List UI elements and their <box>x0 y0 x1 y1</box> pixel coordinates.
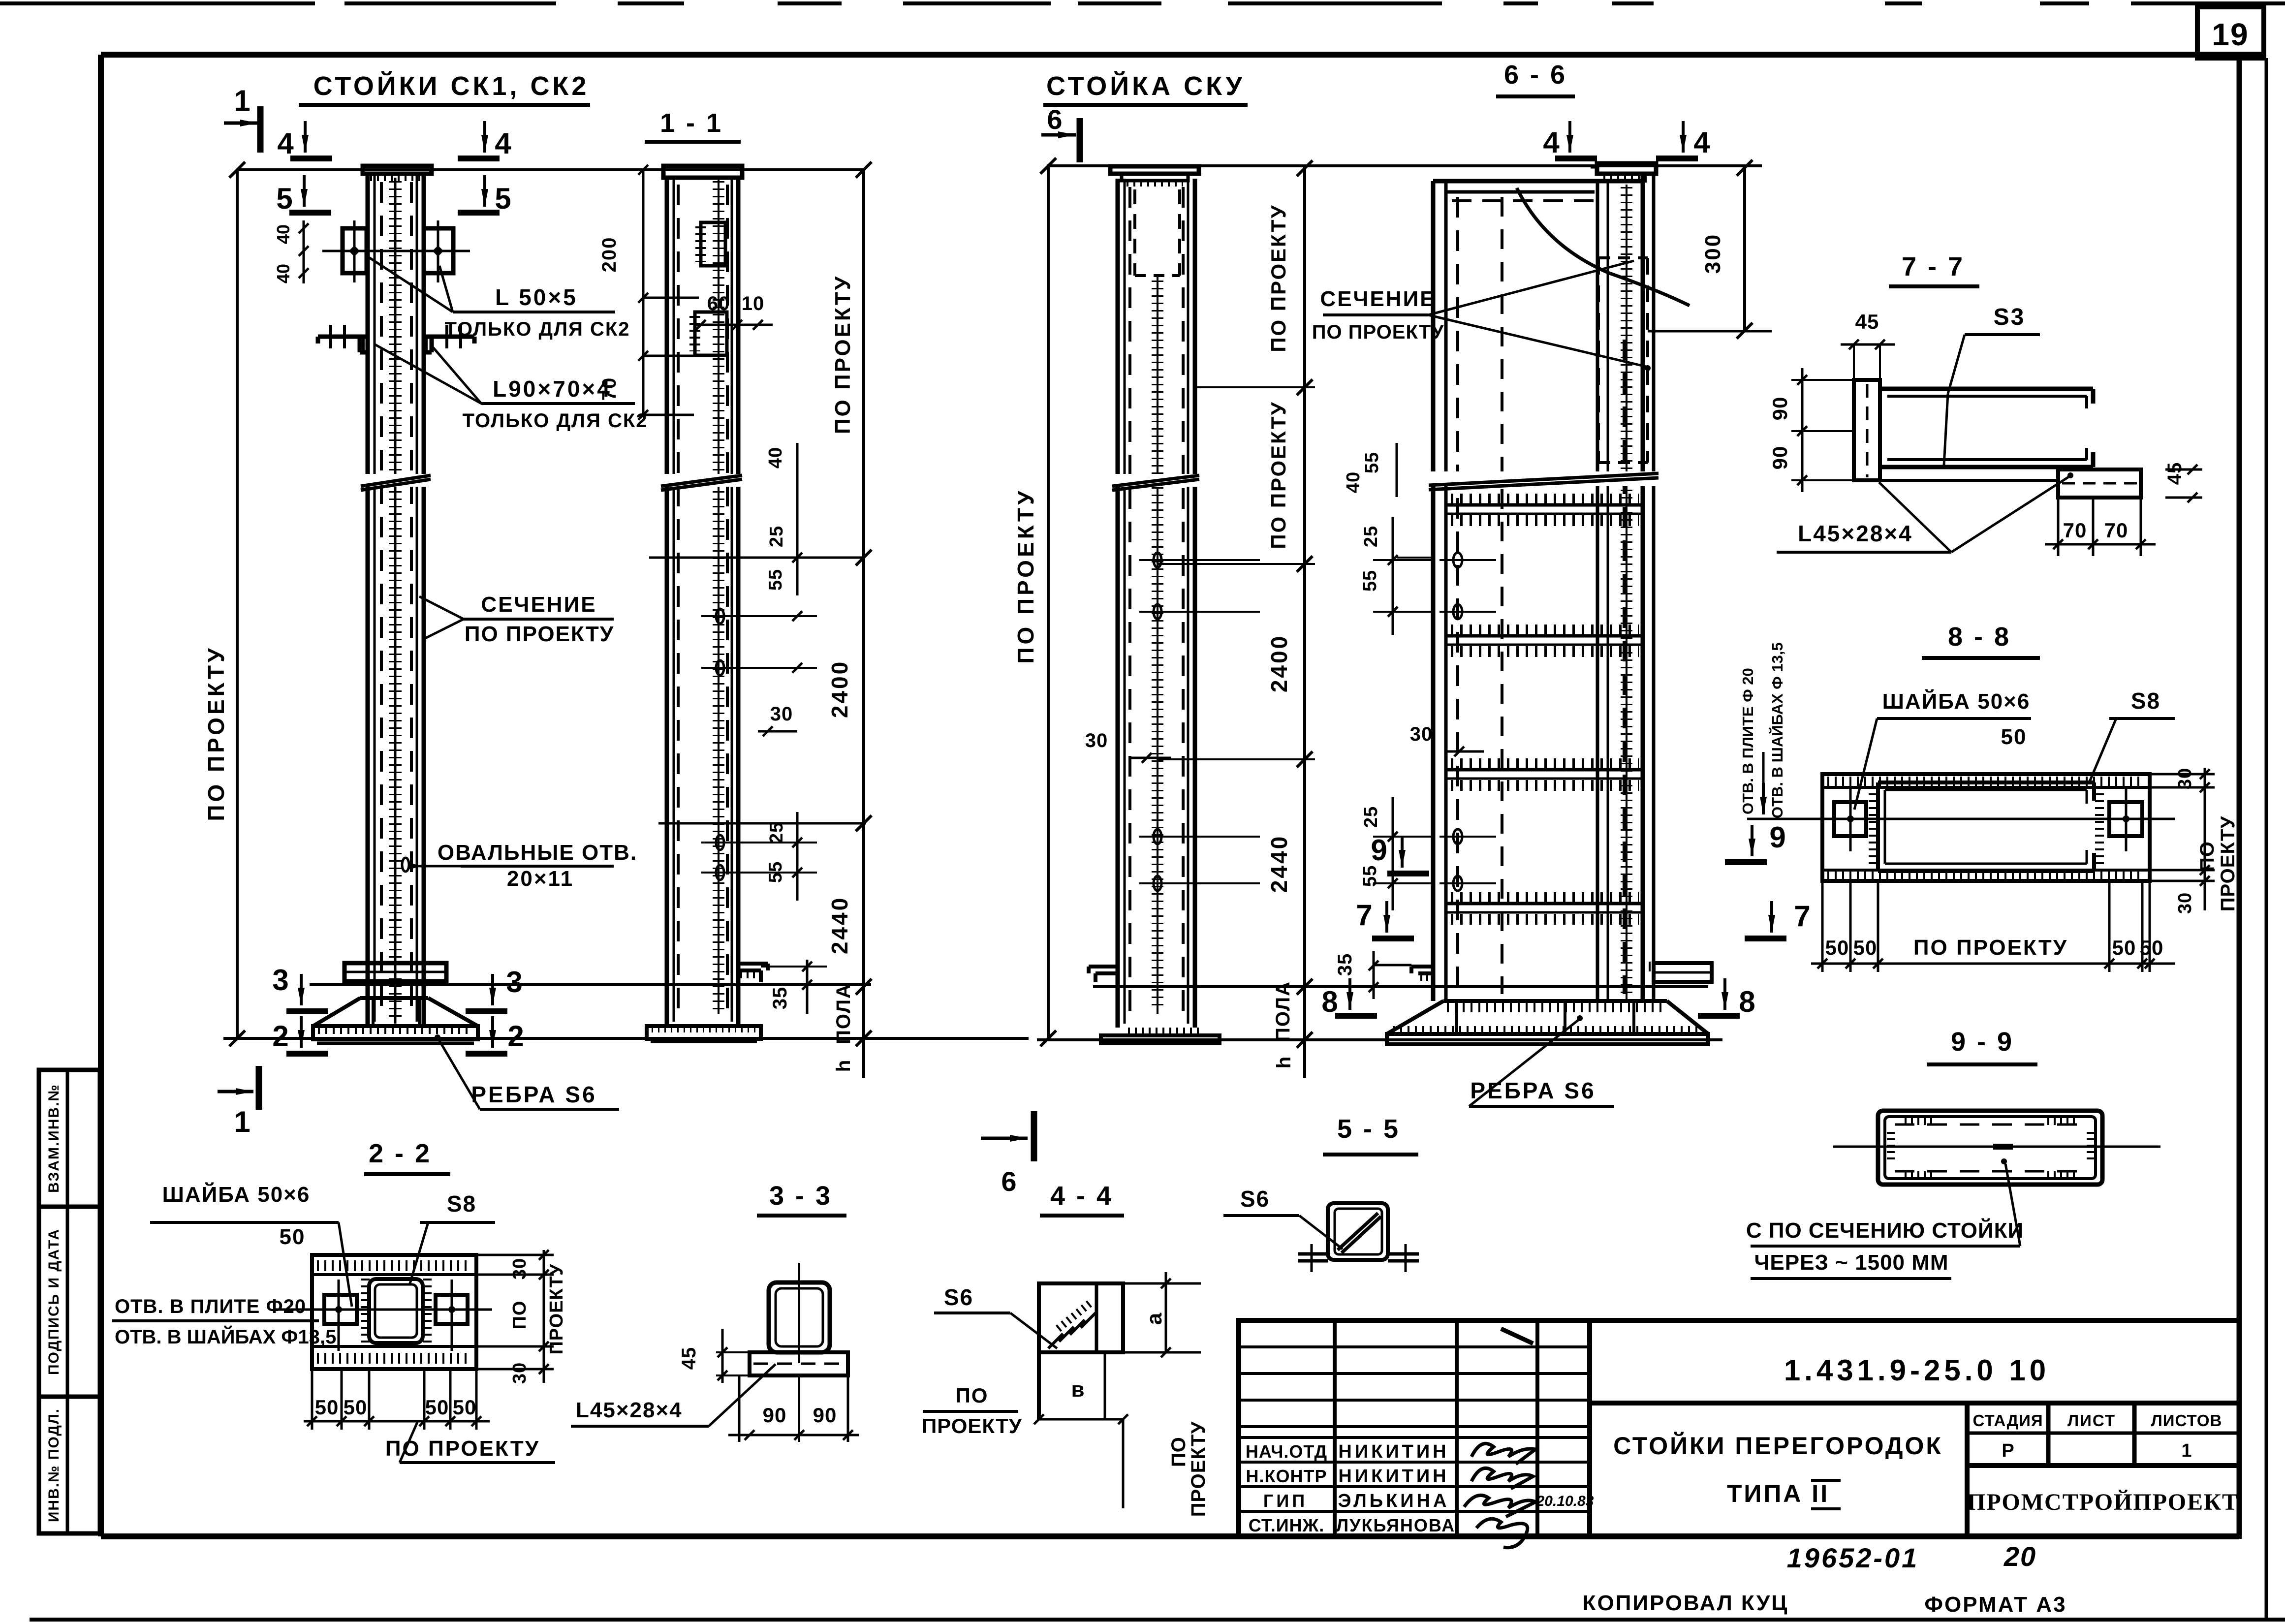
svg-text:3: 3 <box>272 964 288 997</box>
col2 hole group lines <box>649 558 866 823</box>
svg-text:50: 50 <box>453 1396 477 1419</box>
svg-text:ПО ПРОЕКТУ: ПО ПРОЕКТУ <box>831 275 855 434</box>
d88 bottom dims <box>1811 881 2175 972</box>
col1 base trapezoid ribs <box>313 998 478 1043</box>
svg-text:КОПИРОВАЛ КУЦ: КОПИРОВАЛ КУЦ <box>1583 1591 1789 1615</box>
d44 По проекту horizontal <box>922 1384 1022 1437</box>
svg-text:ГИП: ГИП <box>1263 1491 1308 1511</box>
svg-text:50: 50 <box>280 1225 306 1249</box>
svg-text:25: 25 <box>766 526 787 547</box>
col4 rod <box>1626 185 1628 999</box>
d99 tube <box>1878 1111 2102 1185</box>
svg-text:19652-01: 19652-01 <box>1787 1542 1919 1573</box>
row Нач.отд <box>1246 1441 1449 1462</box>
svg-text:ПО: ПО <box>956 1384 989 1407</box>
svg-text:10: 10 <box>742 293 765 314</box>
row ГИП <box>1263 1491 1450 1511</box>
d77 dim 45 right <box>2164 462 2202 502</box>
svg-text:200: 200 <box>598 237 620 273</box>
svg-text:30: 30 <box>770 703 793 725</box>
d22 center line <box>273 1309 492 1311</box>
svg-text:1: 1 <box>2181 1440 2191 1461</box>
d22 hatch columns <box>365 1279 427 1343</box>
svg-text:2 - 2: 2 - 2 <box>369 1139 432 1168</box>
label Сечение по проекту col1 <box>419 593 614 646</box>
svg-text:ПО ПРОЕКТУ: ПО ПРОЕКТУ <box>1913 936 2068 960</box>
col1 body walls <box>368 174 424 1026</box>
col2 dim 60 10 <box>694 293 773 330</box>
svg-text:4: 4 <box>1543 126 1560 159</box>
d22 right dims <box>476 1250 567 1384</box>
svg-text:СТОЙКА СКУ: СТОЙКА СКУ <box>1046 71 1245 101</box>
svg-text:25: 25 <box>766 822 787 843</box>
col1 marks 5-5 <box>276 175 511 215</box>
title block right top divider <box>1590 1401 2239 1405</box>
label Овальные отв 20x11 <box>402 841 637 891</box>
d88 center line <box>1752 818 2175 820</box>
col4 dims 25 55 lower <box>1360 797 1433 910</box>
title 7-7 <box>1889 252 1979 286</box>
sheet title line 1 <box>1613 1432 1943 1460</box>
svg-text:ПОЛА: ПОЛА <box>833 983 854 1044</box>
svg-text:55: 55 <box>1362 452 1382 473</box>
svg-text:2400: 2400 <box>1266 634 1292 692</box>
scan artifact: top edge dashes <box>0 1 2285 5</box>
d77 dims 70 70 <box>2045 498 2156 556</box>
col4 marks 8-8 <box>1321 978 1755 1018</box>
svg-text:СТОЙКИ СК1, СК2: СТОЙКИ СК1, СК2 <box>313 71 590 101</box>
label Ребра S6 6-6 <box>1469 1015 1614 1106</box>
svg-text:20.10.83: 20.10.83 <box>1536 1493 1594 1509</box>
svg-text:9: 9 <box>1769 821 1785 854</box>
d88 hatch cols <box>1873 786 2099 867</box>
col4 dim 300 <box>1648 160 1772 339</box>
d22 plate <box>312 1255 476 1369</box>
svg-text:S8: S8 <box>2131 688 2160 714</box>
col1 marks 2-2 <box>272 1016 524 1054</box>
svg-text:НИКИТИН: НИКИТИН <box>1338 1466 1449 1487</box>
d55 diagonal <box>1338 1213 1381 1253</box>
value 1 <box>2181 1440 2191 1461</box>
col3 dim 30 <box>1085 730 1171 763</box>
svg-text:20×11: 20×11 <box>507 867 574 891</box>
col3 body walls <box>1118 179 1195 1028</box>
label СТАДИЯ <box>1972 1411 2043 1430</box>
sheet number box 19 <box>2197 7 2264 58</box>
d33 dim 45 <box>678 1329 750 1383</box>
col4 dim 30 <box>1410 723 1484 756</box>
svg-text:ОТВ. В ПЛИТЕ Ф 20: ОТВ. В ПЛИТЕ Ф 20 <box>1739 668 1756 814</box>
label Шайба 50x6 d88 <box>1854 688 2031 810</box>
svg-text:L 50×5: L 50×5 <box>495 284 578 310</box>
d33 tube <box>769 1263 830 1363</box>
svg-text:а: а <box>1142 1312 1166 1325</box>
label Листов <box>2151 1411 2222 1430</box>
svg-text:6: 6 <box>1001 1166 1016 1197</box>
label Копировал Куц <box>1583 1591 1789 1615</box>
СКУ right dim chain <box>1158 160 1315 1078</box>
svg-text:ПО: ПО <box>1168 1437 1189 1467</box>
svg-text:50: 50 <box>2140 936 2164 959</box>
svg-text:45: 45 <box>1855 310 1879 333</box>
svg-text:30: 30 <box>2175 768 2195 789</box>
svg-text:35: 35 <box>1334 953 1356 976</box>
svg-text:300: 300 <box>1701 233 1725 274</box>
col2 dim 30 <box>758 703 797 736</box>
svg-text:70: 70 <box>598 377 620 401</box>
d55 feet <box>1298 1244 1419 1272</box>
svg-text:ОВАЛЬНЫЕ ОТВ.: ОВАЛЬНЫЕ ОТВ. <box>438 841 637 865</box>
stamp label Инв.№ подл. <box>46 1408 62 1522</box>
col4 inner channel wall <box>1597 181 1608 999</box>
svg-text:90: 90 <box>1768 446 1791 470</box>
col2 dims 55 40 25 upper <box>720 443 817 673</box>
svg-text:ПО ПРОЕКТУ: ПО ПРОЕКТУ <box>1267 204 1290 352</box>
scan artifact: right page edge <box>2265 58 2268 1621</box>
svg-text:Р: Р <box>2002 1440 2014 1461</box>
svg-text:ТОЛЬКО ДЛЯ СК2: ТОЛЬКО ДЛЯ СК2 <box>463 410 648 432</box>
svg-text:ШАЙБА 50×6: ШАЙБА 50×6 <box>162 1182 311 1207</box>
svg-text:ЛИСТ: ЛИСТ <box>2067 1411 2116 1430</box>
col3 cap plate <box>1110 166 1199 183</box>
svg-text:9: 9 <box>1371 834 1387 867</box>
svg-text:ПРОЕКТУ: ПРОЕКТУ <box>922 1414 1022 1437</box>
col3 rod <box>1157 276 1158 1014</box>
value Р <box>2002 1440 2014 1461</box>
svg-text:3 - 3: 3 - 3 <box>769 1181 832 1211</box>
signature squiggles <box>1464 1443 1594 1547</box>
svg-text:45: 45 <box>2164 462 2186 485</box>
d22 washers <box>324 1280 468 1351</box>
col4 weld bands <box>1446 499 1643 919</box>
title 6-6 <box>1496 60 1575 96</box>
svg-text:55: 55 <box>765 569 786 591</box>
svg-text:h: h <box>833 1059 854 1072</box>
d88 washers <box>1834 787 2142 851</box>
label Шайба 50x6 d22 <box>150 1182 352 1307</box>
svg-text:1 - 1: 1 - 1 <box>660 108 723 138</box>
title Стойки СК1,СК2 <box>299 71 590 105</box>
col4 marks 7-7 <box>1356 899 1810 938</box>
col2 rod <box>718 178 720 1014</box>
svg-text:S8: S8 <box>447 1191 476 1217</box>
svg-text:L90×70×4: L90×70×4 <box>493 376 612 402</box>
svg-text:30: 30 <box>509 1362 530 1384</box>
svg-text:40: 40 <box>273 224 293 244</box>
svg-text:ПРОЕКТУ: ПРОЕКТУ <box>546 1263 567 1354</box>
svg-text:ФОРМАТ А3: ФОРМАТ А3 <box>1924 1593 2066 1617</box>
svg-text:ОТВ. В ШАЙБАХ Ф13,5: ОТВ. В ШАЙБАХ Ф13,5 <box>115 1325 336 1348</box>
svg-text:8 - 8: 8 - 8 <box>1948 622 2011 652</box>
scan artifact: bottom page edge <box>30 1618 2285 1622</box>
label Ребра S6 col1 <box>435 1034 619 1109</box>
svg-text:1: 1 <box>234 84 250 117</box>
svg-text:45: 45 <box>678 1347 700 1370</box>
svg-text:50: 50 <box>1825 936 1849 959</box>
svg-text:70: 70 <box>2104 519 2128 542</box>
d88 channel <box>1878 782 2094 871</box>
col2 dim 70 <box>598 302 694 420</box>
col3 dim line По проекту <box>1013 158 1056 1046</box>
svg-text:Н.КОНТР: Н.КОНТР <box>1246 1466 1327 1486</box>
label Сечение по проекту 6-6 <box>1312 261 1651 371</box>
svg-text:90: 90 <box>813 1404 837 1427</box>
col3 hook bracket <box>1089 967 1118 982</box>
svg-text:3: 3 <box>506 966 522 999</box>
col2 main dim line <box>827 162 872 1078</box>
col4 oval holes <box>1440 553 1496 891</box>
svg-text:55: 55 <box>1360 570 1380 592</box>
svg-text:L45×28×4: L45×28×4 <box>1798 521 1913 546</box>
svg-text:4: 4 <box>277 127 294 160</box>
svg-text:40: 40 <box>765 447 786 468</box>
svg-text:ВЗАМ.ИНВ.№: ВЗАМ.ИНВ.№ <box>46 1084 62 1193</box>
svg-text:50: 50 <box>2001 725 2027 749</box>
svg-text:ПО ПРОЕКТУ: ПО ПРОЕКТУ <box>1312 321 1444 343</box>
d77 dim 45 top <box>1841 310 1895 380</box>
d55 square tube <box>1328 1203 1388 1260</box>
floor line left <box>223 1037 1029 1040</box>
svg-text:ПОЛА: ПОЛА <box>1272 981 1294 1042</box>
svg-text:ШАЙБА 50×6: ШАЙБА 50×6 <box>1882 688 2031 714</box>
svg-text:ЧЕРЕЗ ~ 1500 ММ: ЧЕРЕЗ ~ 1500 ММ <box>1754 1250 1948 1275</box>
title 1-1 <box>645 108 741 142</box>
svg-text:ЛИСТОВ: ЛИСТОВ <box>2151 1411 2222 1430</box>
svg-text:НАЧ.ОТД: НАЧ.ОТД <box>1246 1441 1327 1462</box>
svg-text:СТ.ИНЖ.: СТ.ИНЖ. <box>1249 1515 1324 1535</box>
d44 square <box>1039 1283 1123 1419</box>
d77 dims 90 90 <box>1768 368 1854 492</box>
svg-text:30: 30 <box>1085 730 1108 751</box>
title 9-9 <box>1927 1027 2037 1064</box>
col4 dashed pocket <box>1598 258 1648 463</box>
col2 dim 200 <box>598 165 699 303</box>
col2 oval holes <box>701 609 758 880</box>
col3 mark 6 bottom <box>981 1111 1034 1197</box>
label L90x70x4 <box>375 344 648 432</box>
svg-text:25: 25 <box>1361 806 1381 828</box>
label S6 d55 <box>1223 1186 1343 1249</box>
label S8 d88 <box>2090 688 2175 781</box>
d88 plate <box>1822 774 2150 881</box>
sheet title line 2 <box>1727 1480 1841 1509</box>
svg-text:СЕЧЕНИЕ: СЕЧЕНИЕ <box>481 593 596 617</box>
col3 dashed lines <box>1130 187 1183 1014</box>
svg-text:50: 50 <box>2112 936 2136 959</box>
title 3-3 <box>757 1181 846 1216</box>
title block outline <box>1239 1320 2239 1536</box>
d88 right dims <box>2150 768 2239 914</box>
col2 body walls <box>667 178 738 1026</box>
col3 base <box>1101 1031 1220 1043</box>
svg-text:СЕЧЕНИЕ: СЕЧЕНИЕ <box>1320 287 1436 311</box>
row Н.контр <box>1246 1466 1449 1487</box>
svg-text:ПО: ПО <box>509 1301 530 1330</box>
label L50x5 <box>368 257 630 340</box>
svg-text:2440: 2440 <box>1266 835 1292 893</box>
col1 mark 1 top <box>224 84 260 153</box>
title 8-8 <box>1922 622 2040 658</box>
top extension line СКУ/6-6 <box>1048 164 1762 167</box>
col4 base <box>1387 1001 1708 1044</box>
clamp level line col1 <box>310 983 871 986</box>
svg-text:20: 20 <box>2003 1541 2036 1572</box>
svg-text:ОТВ. В ШАЙБАХ Ф 13,5: ОТВ. В ШАЙБАХ Ф 13,5 <box>1768 642 1786 818</box>
col4 marks 4-4 <box>1543 121 1710 159</box>
svg-text:2440: 2440 <box>827 896 852 954</box>
d77 end plate <box>1854 380 1880 480</box>
svg-text:С ПО СЕЧЕНИЮ СТОЙКИ: С ПО СЕЧЕНИЮ СТОЙКИ <box>1746 1218 2024 1243</box>
col3 oval holes <box>1139 553 1196 891</box>
label По проекту d22 bottom <box>385 1422 555 1463</box>
svg-text:40: 40 <box>273 264 293 283</box>
col1 dim line По проекту <box>203 162 245 1046</box>
svg-text:2400: 2400 <box>827 660 852 718</box>
svg-text:L45×28×4: L45×28×4 <box>576 1398 683 1422</box>
label L45x28x4 d77 <box>1777 472 2073 552</box>
col2 break mark <box>661 474 742 490</box>
col2 cap plate <box>663 166 742 178</box>
label S3 <box>1944 304 2040 465</box>
svg-text:2: 2 <box>272 1020 288 1053</box>
svg-text:60: 60 <box>707 293 730 314</box>
svg-text:6 - 6: 6 - 6 <box>1504 60 1567 90</box>
svg-text:ЭЛЬКИНА: ЭЛЬКИНА <box>1338 1491 1450 1511</box>
sheet number 20 <box>2003 1541 2036 1572</box>
svg-text:S3: S3 <box>1994 304 2026 330</box>
svg-text:h: h <box>1273 1056 1295 1068</box>
title 5-5 <box>1323 1114 1418 1155</box>
d44 hatch weld <box>1048 1303 1096 1348</box>
svg-text:70: 70 <box>2063 519 2087 542</box>
svg-text:РЕБРА S6: РЕБРА S6 <box>471 1082 596 1107</box>
svg-text:ИНВ.№ ПОДЛ.: ИНВ.№ ПОДЛ. <box>46 1408 62 1522</box>
col2 base <box>647 1026 761 1042</box>
top extension line col1/1-1 <box>237 168 864 171</box>
col4 break mark <box>1429 471 1659 490</box>
col1 cap plate <box>363 166 432 177</box>
svg-text:ПРОМСТРОЙПРОЕКТ: ПРОМСТРОЙПРОЕКТ <box>1967 1489 2239 1515</box>
label L45x28x4 <box>571 1364 776 1426</box>
col2 dims 25 55 lower <box>720 812 817 901</box>
svg-text:НИКИТИН: НИКИТИН <box>1338 1441 1449 1462</box>
svg-text:4: 4 <box>495 127 511 160</box>
svg-text:7 - 7: 7 - 7 <box>1902 252 1965 281</box>
d77 bottom angle <box>1880 469 2141 498</box>
title 2-2 <box>364 1139 450 1174</box>
row Ст.инж. <box>1249 1515 1455 1535</box>
stamp strip boxes <box>39 1070 100 1533</box>
col1 dim 40 40 <box>273 220 309 283</box>
col1 marks 4-4 <box>277 121 511 160</box>
stray pen mark <box>1501 1329 1533 1343</box>
col1 marks 3-3 <box>272 964 522 1011</box>
d99 corner hatches <box>1891 1121 2091 1175</box>
col3 mark 6 top <box>1041 104 1080 162</box>
svg-text:7: 7 <box>1356 899 1372 932</box>
col4 marks 9-9 <box>1371 821 1785 874</box>
label С по сечению <box>1746 1158 2024 1279</box>
svg-text:40: 40 <box>1343 471 1364 493</box>
svg-text:50: 50 <box>344 1396 368 1419</box>
svg-text:1.431.9-25.0 10: 1.431.9-25.0 10 <box>1784 1354 2050 1387</box>
d44 По проекту vertical <box>1034 1414 1209 1517</box>
svg-text:S6: S6 <box>1240 1186 1270 1212</box>
col1 upper bracket angles L90x70x4 <box>318 325 474 352</box>
d22 channel <box>369 1279 423 1343</box>
col1 dashed inner lines <box>381 182 411 1014</box>
col4 top cap <box>1591 163 1656 179</box>
document number <box>1784 1354 2050 1387</box>
col1 clamp squares L50x5 <box>322 220 470 282</box>
stamp label Взам.инв.№ <box>46 1084 62 1193</box>
label Отв в плите d22 <box>112 1296 336 1348</box>
svg-text:25: 25 <box>1361 526 1381 547</box>
col4 clamp plate right <box>1643 963 1712 982</box>
col4 dims 25 55 upper <box>1360 517 1433 635</box>
svg-text:9 - 9: 9 - 9 <box>1951 1027 2014 1057</box>
svg-text:СТАДИЯ: СТАДИЯ <box>1972 1411 2043 1430</box>
svg-text:8: 8 <box>1739 985 1755 1018</box>
col4 dim 35 <box>1334 951 1411 999</box>
label Лист <box>2067 1411 2116 1430</box>
svg-text:50: 50 <box>425 1396 449 1419</box>
svg-text:5 - 5: 5 - 5 <box>1337 1114 1400 1144</box>
svg-text:ПО ПРОЕКТУ: ПО ПРОЕКТУ <box>1267 401 1290 549</box>
svg-text:ТОЛЬКО ДЛЯ СК2: ТОЛЬКО ДЛЯ СК2 <box>445 318 630 340</box>
col1 base clamp plate <box>344 963 446 981</box>
floor line right <box>1037 1038 1722 1041</box>
label Формат А3 <box>1924 1593 2066 1617</box>
d44 dim a <box>1123 1272 1201 1357</box>
stamp label Подпись и дата <box>46 1228 62 1375</box>
d22 bottom dims <box>304 1369 490 1430</box>
svg-text:ЛУКЬЯНОВА: ЛУКЬЯНОВА <box>1336 1515 1455 1535</box>
svg-text:СТОЙКИ ПЕРЕГОРОДОК: СТОЙКИ ПЕРЕГОРОДОК <box>1613 1432 1943 1460</box>
order number 19652-01 <box>1787 1542 1919 1573</box>
d77 channel <box>1880 389 2093 467</box>
col1 threaded rod <box>394 178 397 1024</box>
d44 label в <box>1071 1377 1084 1402</box>
label S8 d22 <box>410 1191 495 1283</box>
svg-text:ПО ПРОЕКТУ: ПО ПРОЕКТУ <box>1013 488 1038 663</box>
col4 walls <box>1433 174 1654 1001</box>
d33 plate <box>750 1352 848 1375</box>
col3 hole ties <box>1139 560 1260 883</box>
col4 hook bracket <box>1411 967 1433 977</box>
svg-text:30: 30 <box>509 1258 530 1280</box>
col2 dashed lines <box>678 185 727 1014</box>
svg-text:S6: S6 <box>944 1284 973 1310</box>
org name ПРОМСТРОЙПРОЕКТ <box>1967 1489 2239 1515</box>
label Отв rotated d88 <box>1739 642 1822 819</box>
col1 mark 1 bottom <box>218 1066 259 1138</box>
svg-text:1: 1 <box>234 1105 250 1138</box>
svg-text:ПО ПРОЕКТУ: ПО ПРОЕКТУ <box>465 622 614 646</box>
svg-text:19: 19 <box>2212 17 2249 52</box>
col4 leader curves <box>1517 188 1690 306</box>
svg-text:4: 4 <box>1693 126 1710 159</box>
svg-text:ПРОЕКТУ: ПРОЕКТУ <box>2217 816 2239 912</box>
svg-text:30: 30 <box>2175 892 2195 914</box>
title Стойка СКУ <box>1043 71 1248 105</box>
svg-text:30: 30 <box>1410 723 1433 745</box>
svg-text:ПО ПРОЕКТУ: ПО ПРОЕКТУ <box>203 645 229 821</box>
title block stage grid <box>1967 1403 2239 1536</box>
col2 weld pocket top <box>695 222 727 355</box>
svg-text:35: 35 <box>769 987 791 1010</box>
col4 dims left upper <box>1343 443 1433 558</box>
